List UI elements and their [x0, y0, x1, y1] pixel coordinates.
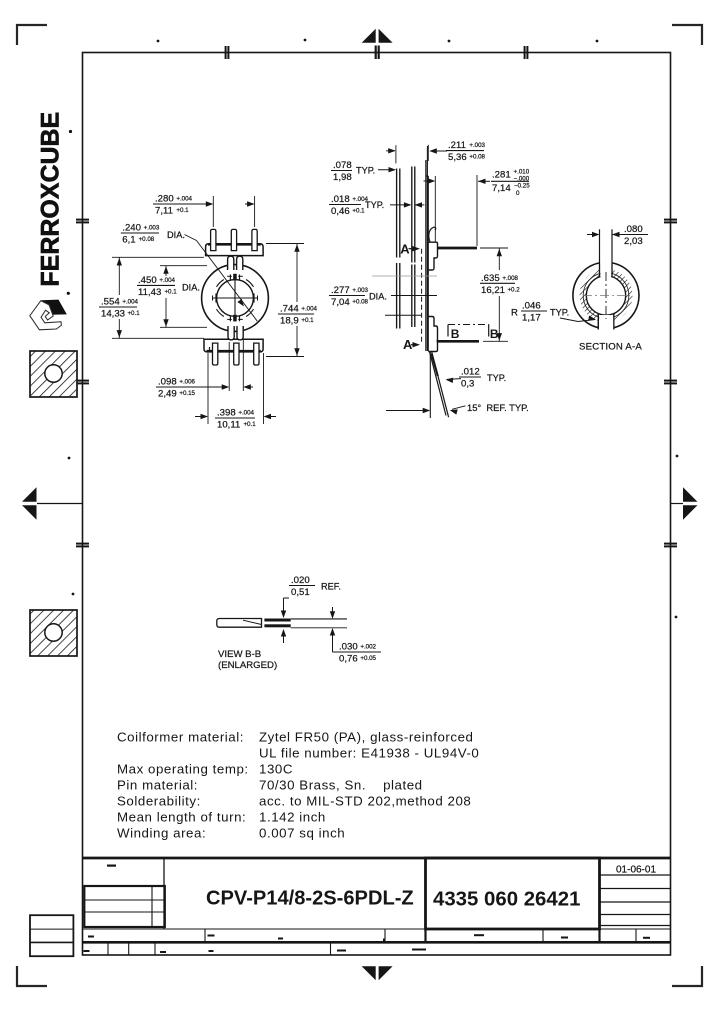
svg-text:+.004: +.004: [122, 299, 138, 306]
svg-text:+0.08: +0.08: [139, 236, 155, 243]
svg-text:DIA.: DIA.: [369, 292, 387, 302]
svg-text:16,21: 16,21: [481, 285, 505, 296]
svg-text:1,98: 1,98: [333, 172, 352, 183]
svg-text:.012: .012: [461, 367, 480, 378]
svg-text:acc. to MIL-STD 202,method 208: acc. to MIL-STD 202,method 208: [259, 794, 471, 809]
svg-text:.080: .080: [624, 224, 643, 235]
svg-text:2,03: 2,03: [624, 236, 643, 247]
svg-text:11,43: 11,43: [138, 287, 161, 298]
svg-text:DIA.: DIA.: [182, 282, 200, 292]
svg-text:R: R: [511, 308, 518, 319]
svg-text:.277: .277: [331, 285, 350, 296]
svg-text:B: B: [451, 327, 460, 341]
svg-text:130C: 130C: [259, 762, 293, 777]
svg-text:REF.: REF.: [321, 582, 341, 592]
svg-text:.450: .450: [138, 275, 157, 286]
svg-text:01-06-01: 01-06-01: [616, 865, 656, 876]
svg-text:.098: .098: [158, 377, 177, 388]
svg-text:+0.1: +0.1: [164, 288, 177, 295]
svg-text:+0.1: +0.1: [301, 317, 314, 324]
svg-text:0,3: 0,3: [461, 379, 474, 390]
svg-text:CPV-P14/8-2S-6PDL-Z: CPV-P14/8-2S-6PDL-Z: [206, 888, 414, 910]
svg-text:TYP.: TYP.: [356, 166, 375, 176]
svg-text:(ENLARGED): (ENLARGED): [218, 660, 277, 671]
svg-text:Mean length of turn:: Mean length of turn:: [117, 810, 246, 825]
svg-text:.020: .020: [291, 575, 310, 586]
svg-text:1.142 inch: 1.142 inch: [259, 810, 326, 825]
svg-text:+0.1: +0.1: [176, 207, 189, 214]
svg-text:70/30 Brass, Sn. plated: 70/30 Brass, Sn. plated: [259, 778, 423, 793]
svg-text:−0.25: −0.25: [514, 183, 530, 190]
svg-text:+.006: +.006: [179, 379, 195, 386]
svg-text:.078: .078: [333, 160, 352, 171]
svg-text:TYP.: TYP.: [365, 200, 384, 210]
svg-text:.554: .554: [101, 297, 120, 308]
svg-text:.281: .281: [492, 170, 511, 181]
svg-text:Max operating temp:: Max operating temp:: [117, 762, 249, 777]
svg-text:1,17: 1,17: [522, 313, 541, 324]
svg-text:0,76: 0,76: [339, 654, 358, 665]
svg-text:7,04: 7,04: [331, 297, 350, 308]
svg-text:+.002: +.002: [360, 644, 376, 651]
svg-text:.398: .398: [217, 408, 236, 419]
svg-text:0,46: 0,46: [331, 206, 350, 217]
svg-text:Zytel FR50 (PA), glass-reinfor: Zytel FR50 (PA), glass-reinforced: [259, 730, 473, 745]
svg-text:.018: .018: [331, 194, 350, 205]
svg-text:+.004: +.004: [301, 306, 317, 313]
svg-text:7,11: 7,11: [155, 206, 173, 217]
svg-text:0: 0: [516, 190, 520, 197]
svg-text:+0.15: +0.15: [179, 390, 195, 397]
svg-text:.280: .280: [155, 194, 174, 205]
svg-text:+.010: +.010: [514, 169, 530, 176]
svg-text:Coilformer material:: Coilformer material:: [117, 730, 244, 745]
svg-text:+0.08: +0.08: [469, 154, 485, 161]
svg-text:7,14: 7,14: [492, 183, 511, 194]
svg-text:4335 060 26421: 4335 060 26421: [433, 889, 580, 911]
svg-text:VIEW B-B: VIEW B-B: [218, 649, 261, 660]
svg-text:TYP.: TYP.: [487, 373, 506, 383]
svg-text:+.003: +.003: [469, 142, 485, 149]
svg-text:14,33: 14,33: [101, 309, 125, 320]
svg-text:.240: .240: [122, 223, 141, 234]
svg-text:.030: .030: [339, 642, 358, 653]
svg-text:SECTION A-A: SECTION A-A: [579, 342, 642, 353]
svg-text:Winding area:: Winding area:: [117, 826, 206, 841]
svg-text:2,49: 2,49: [158, 389, 177, 400]
svg-text:+.003: +.003: [352, 287, 368, 294]
svg-text:+.003: +.003: [144, 225, 160, 232]
svg-text:0,51: 0,51: [291, 587, 310, 598]
svg-text:+0.1: +0.1: [243, 421, 256, 428]
svg-text:15° REF. TYP.: 15° REF. TYP.: [467, 402, 529, 413]
svg-text:+.004: +.004: [159, 277, 175, 284]
svg-text:10,11: 10,11: [217, 420, 240, 431]
svg-text:+.008: +.008: [502, 275, 518, 282]
svg-text:+0.2: +0.2: [507, 286, 520, 293]
svg-text:Solderability:: Solderability:: [117, 794, 201, 809]
svg-text:+0.1: +0.1: [127, 310, 140, 317]
svg-text:TYP.: TYP.: [550, 308, 569, 318]
svg-text:.635: .635: [481, 273, 500, 284]
svg-text:.744: .744: [280, 304, 299, 315]
svg-text:+.004: +.004: [176, 196, 192, 203]
svg-text:.046: .046: [522, 301, 541, 312]
svg-text:5,36: 5,36: [448, 152, 467, 163]
svg-text:0.007 sq inch: 0.007 sq inch: [259, 826, 345, 841]
svg-text:UL file number: E41938 - UL94V: UL file number: E41938 - UL94V-0: [259, 746, 479, 761]
svg-text:Pin material:: Pin material:: [117, 778, 198, 793]
svg-text:18,9: 18,9: [280, 316, 299, 327]
svg-text:A: A: [400, 241, 410, 256]
svg-text:+0.08: +0.08: [352, 299, 368, 306]
svg-text:A: A: [403, 337, 413, 352]
svg-text:6,1: 6,1: [122, 235, 135, 246]
svg-text:FERROXCUBE: FERROXCUBE: [38, 112, 65, 287]
svg-text:.211: .211: [448, 140, 466, 151]
svg-text:+0.05: +0.05: [360, 655, 376, 662]
svg-text:DIA.: DIA.: [167, 230, 185, 240]
svg-text:+.004: +.004: [238, 410, 254, 417]
svg-text:+0.1: +0.1: [352, 208, 365, 215]
